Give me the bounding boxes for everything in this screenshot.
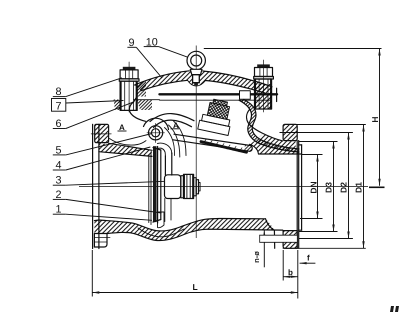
left bolt washer <box>119 79 139 81</box>
chamber roof behind hinge <box>169 125 180 157</box>
gasket thick line <box>160 93 278 95</box>
nut dark edges <box>183 175 185 198</box>
L extension line right <box>297 250 299 299</box>
svg-text:L: L <box>193 282 198 292</box>
svg-text:A: A <box>119 123 125 132</box>
right top wall hatch <box>250 134 302 155</box>
left lug bottom line <box>134 99 160 101</box>
seat ring bottom section <box>158 212 165 228</box>
D2 extension lines <box>280 132 353 134</box>
dome outer line right <box>203 71 272 87</box>
bottom wall hatch <box>94 219 282 241</box>
eye ring collar <box>190 69 202 74</box>
chamber roof arc 3 <box>165 128 175 156</box>
right flange bottom block <box>283 231 297 249</box>
arm upper curve <box>150 114 194 122</box>
right bolt washer <box>254 77 274 80</box>
svg-text:1: 1 <box>56 203 62 215</box>
left flange top block <box>95 124 109 142</box>
stud hex nut <box>184 174 194 198</box>
dome hatch <box>135 71 273 93</box>
svg-text:D3: D3 <box>324 182 334 193</box>
svg-text:D2: D2 <box>339 182 349 193</box>
right bolt centerline <box>263 60 265 112</box>
dimension b line <box>283 276 298 278</box>
left flange bolt hole tick <box>91 133 111 135</box>
bonnet right end edge <box>276 88 278 101</box>
svg-text:b: b <box>288 268 293 277</box>
neck outline left <box>129 102 145 121</box>
hinge boss outer arc <box>144 118 169 129</box>
centerline horizontal (pipe axis) <box>79 186 368 188</box>
D1 extension lines <box>284 124 366 126</box>
hub washer <box>181 176 184 198</box>
right bolt head cap <box>257 64 270 67</box>
body outer S right <box>247 110 283 141</box>
seat pocket curve <box>138 228 184 237</box>
dimension H line <box>379 49 381 186</box>
bottom fillet into right flange <box>266 219 275 249</box>
eye ring inner circle <box>191 55 202 66</box>
cluster hex nut <box>207 103 229 120</box>
cluster base <box>198 120 230 135</box>
hinge pin centerlines <box>147 132 165 134</box>
bolt hole white band bottom-right flange <box>260 236 297 243</box>
svg-text:D1: D1 <box>354 182 364 193</box>
b extension line left <box>282 250 284 281</box>
left bolt centerline <box>128 62 130 112</box>
disc hub connection verticals <box>164 156 166 175</box>
n-phi dimension vertical line with up arrow <box>263 230 265 267</box>
bottom floor line <box>94 219 265 231</box>
H arrows <box>378 49 380 186</box>
disc plate back line <box>160 150 162 220</box>
eye ring stud <box>193 75 200 83</box>
dimension D2 line <box>348 133 350 239</box>
left body boss hatch <box>137 100 152 111</box>
left boss hatch left of bolt <box>114 100 121 111</box>
right bolt stud <box>255 79 272 109</box>
dome dip under eye stud <box>188 80 206 86</box>
disc top edge <box>153 148 161 150</box>
S-band hatch <box>239 100 299 153</box>
left flange bottom block lines <box>94 237 110 239</box>
left bolt hex head <box>120 70 138 79</box>
disc seal dark plate <box>153 146 157 222</box>
left lug hatch <box>137 81 146 97</box>
left flange raised-face line <box>98 124 100 248</box>
left lug outline <box>134 84 138 103</box>
chamber opening curve above top wall <box>110 139 147 146</box>
arm band hatch ticks <box>203 140 242 152</box>
top wall hatch <box>99 143 152 156</box>
left bolt thread dark edges <box>120 81 122 110</box>
dome inner line left <box>141 80 188 90</box>
svg-text:DN: DN <box>308 181 318 193</box>
dimension D1 line <box>363 125 365 249</box>
H bottom tick bar <box>369 186 385 188</box>
stud end cap <box>196 180 198 194</box>
right top wall bore line <box>259 153 302 155</box>
S-band inner edge <box>244 100 300 150</box>
L extension line left <box>91 250 93 297</box>
svg-text:H: H <box>370 116 380 122</box>
arm bar rounded end <box>250 146 252 152</box>
svg-text:n-ø: n-ø <box>252 251 261 263</box>
small tab on body flange <box>240 91 251 99</box>
raised face right edge <box>301 145 303 230</box>
disc plate front line <box>157 147 159 224</box>
centerline vertical (valve axis) <box>195 46 197 239</box>
top wall outer line <box>109 143 152 150</box>
cluster washer <box>202 114 230 126</box>
dimension DN line <box>317 155 319 219</box>
disc hub boss <box>165 175 181 199</box>
stud end step <box>199 183 201 191</box>
cluster top cap <box>213 99 228 106</box>
arm bar end hatch <box>244 145 252 152</box>
raised face top/bottom <box>299 144 302 146</box>
dome outer line left <box>135 71 190 85</box>
dimension L line <box>92 292 297 294</box>
stud washer 2 <box>194 178 197 196</box>
seat ring face lines <box>148 155 150 223</box>
hinge pin outer circle <box>149 126 163 140</box>
dome inner line right <box>206 81 265 93</box>
left flange outer face line <box>92 124 94 248</box>
eye ring outer circle <box>187 51 205 69</box>
D3 extension lines <box>299 141 338 143</box>
right bolt hex head <box>255 68 273 77</box>
left bolt head cap <box>123 67 136 70</box>
H top extension line <box>204 48 382 50</box>
arm lower curve <box>154 120 192 127</box>
right bolt thread dark edges <box>254 79 256 109</box>
arm elbow arcs into hub <box>158 143 172 153</box>
dimension f line with arrow <box>300 262 316 264</box>
DN extension lines <box>302 154 323 156</box>
arm bar top edge <box>174 134 251 145</box>
right flange right face lines <box>296 141 298 249</box>
bottom outer line <box>107 229 283 240</box>
body flange top line <box>160 99 272 101</box>
disc bottom edge <box>153 220 161 223</box>
hinge pin inner circle <box>152 129 160 137</box>
hub lower verticals to seat <box>164 199 166 222</box>
arm lower thick band <box>201 142 247 153</box>
arm bar bottom edge <box>173 140 250 152</box>
top wall bore line <box>99 152 152 157</box>
bottom-right corner glyph <box>390 306 399 312</box>
dimension D3 line <box>333 142 335 232</box>
eye ring stud tip <box>194 83 198 86</box>
right flange top block <box>283 124 297 140</box>
right lug hatch <box>255 84 272 109</box>
left bolt stud <box>120 81 137 110</box>
left flange bottom block <box>94 234 107 248</box>
S-band outer edge <box>239 100 299 152</box>
svg-text:f: f <box>307 254 310 263</box>
